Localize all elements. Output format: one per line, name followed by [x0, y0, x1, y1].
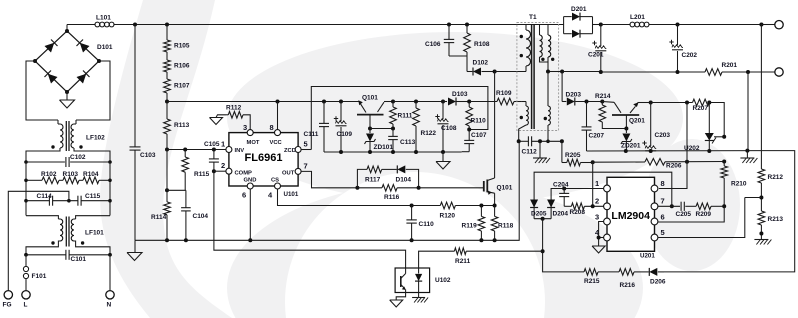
capacitor C111 — [322, 100, 326, 104]
wire out+ down — [760, 25, 762, 151]
svg-text:U101: U101 — [284, 191, 299, 198]
ground hatch RTN — [746, 151, 748, 158]
svg-text:L201: L201 — [630, 14, 645, 21]
svg-text:C102: C102 — [70, 154, 86, 161]
resistor R211 — [454, 248, 466, 255]
wire main ground rail — [135, 141, 519, 240]
transistor Q101 MOSFET — [494, 72, 496, 179]
resistor R120 — [412, 205, 441, 207]
svg-text:LF102: LF102 — [86, 135, 105, 142]
svg-text:C115: C115 — [85, 193, 101, 200]
wire INV row — [167, 149, 226, 151]
svg-text:C201: C201 — [588, 52, 604, 59]
resistor R115 — [184, 150, 186, 158]
svg-text:R216: R216 — [620, 282, 636, 289]
wire pin3 pin4 ground — [599, 222, 604, 247]
svg-text:R211: R211 — [455, 258, 471, 265]
node C203 — [649, 101, 653, 105]
node C204 — [562, 187, 566, 191]
svg-text:D203: D203 — [566, 92, 582, 99]
wire LF101 bottoms — [26, 241, 60, 255]
node COMP — [212, 169, 216, 173]
diode D204 — [547, 200, 555, 208]
node pin2 — [591, 204, 595, 208]
svg-text:D103: D103 — [452, 91, 468, 98]
resistor R117 — [367, 166, 382, 173]
svg-text:C111: C111 — [304, 131, 319, 138]
svg-text:R103: R103 — [63, 171, 79, 178]
svg-text:C203: C203 — [655, 132, 671, 139]
capacitors C114 C115 row — [26, 200, 49, 202]
svg-text:LF101: LF101 — [85, 230, 104, 237]
bridge diode bottom-right — [76, 70, 89, 83]
wire pin8 vertical — [659, 103, 687, 189]
svg-text:ZD201: ZD201 — [621, 143, 641, 150]
svg-text:FL6961: FL6961 — [245, 152, 283, 164]
resistor R110 — [468, 102, 470, 108]
svg-text:VCC: VCC — [270, 140, 283, 146]
node top-R105 — [165, 23, 169, 27]
wire bridge-right to LF102 — [76, 61, 110, 120]
wire secondary bottoms — [540, 57, 549, 62]
svg-text:MOT: MOT — [247, 140, 260, 146]
svg-text:GND: GND — [244, 178, 257, 184]
wire right rail — [109, 162, 111, 216]
svg-text:C105: C105 — [204, 141, 220, 148]
resistor R208 — [564, 205, 571, 207]
svg-text:R213: R213 — [768, 216, 784, 223]
svg-text:R102: R102 — [41, 171, 57, 178]
wire tap to D203 — [561, 72, 563, 102]
svg-text:3: 3 — [595, 213, 599, 222]
diode D104 — [397, 165, 405, 173]
svg-text:R206: R206 — [666, 163, 682, 170]
resistor R205 — [562, 162, 567, 164]
wire bridge-left to LF102 — [26, 61, 58, 120]
svg-text:F101: F101 — [32, 273, 47, 280]
node VCC rail left — [165, 100, 169, 104]
wire LF102 bottoms to rails — [26, 148, 60, 162]
resistor R210 — [723, 162, 725, 167]
svg-text:C108: C108 — [441, 125, 457, 132]
svg-text:Q101: Q101 — [362, 95, 378, 102]
resistors R102 R103 R104 row — [26, 179, 42, 181]
capacitor C107 — [468, 130, 470, 141]
wire pin6 GND — [249, 189, 251, 240]
svg-text:C106: C106 — [425, 41, 441, 48]
svg-text:C103: C103 — [140, 152, 156, 159]
node gate — [417, 186, 421, 190]
inductor L101 — [95, 22, 100, 27]
svg-text:R109: R109 — [496, 90, 512, 97]
svg-text:R210: R210 — [731, 181, 747, 188]
resistor R108 — [466, 25, 468, 34]
wire left rail — [25, 162, 27, 216]
svg-text:R105: R105 — [174, 43, 190, 50]
svg-text:C205: C205 — [676, 211, 692, 218]
wire out rail — [601, 24, 630, 26]
capacitor C207 — [586, 102, 588, 127]
transistor Q101 regulator BJT — [361, 104, 367, 113]
node C110 — [410, 204, 414, 208]
capacitor C103 — [134, 25, 136, 147]
svg-text:Q201: Q201 — [629, 118, 645, 125]
ground snubber — [442, 152, 444, 162]
wire U202 ref — [714, 136, 724, 138]
wire 12V rail — [651, 102, 693, 104]
node C201 — [599, 23, 603, 27]
svg-text:R212: R212 — [768, 174, 784, 181]
capacitor C202 electrolytic — [677, 25, 679, 46]
ground C103 rail — [134, 240, 136, 252]
fuse F101 — [25, 255, 27, 266]
wire COMP — [214, 170, 226, 172]
svg-text:R106: R106 — [174, 63, 190, 70]
svg-text:C114: C114 — [37, 193, 53, 200]
terminal N — [106, 291, 114, 299]
svg-text:D204: D204 — [553, 211, 569, 218]
svg-text:U102: U102 — [435, 277, 451, 284]
capacitor C112 — [519, 140, 529, 142]
resistor R213 — [758, 211, 765, 225]
node R210 bottom — [722, 204, 726, 208]
T1 secondary winding 24V — [539, 25, 541, 36]
node R114 row — [165, 188, 169, 192]
wire W2 D205 — [534, 172, 672, 219]
svg-text:INV: INV — [235, 148, 245, 154]
svg-text:R215: R215 — [584, 278, 600, 285]
wire RTN down — [747, 72, 749, 150]
svg-text:2: 2 — [595, 197, 599, 206]
wire N drop — [109, 255, 111, 290]
wire top rail — [67, 24, 95, 26]
resistor R206 — [593, 161, 645, 163]
wire ZCD pin5 loop — [301, 149, 311, 151]
transistor Q201 — [602, 101, 614, 104]
ground R213 — [760, 236, 762, 240]
wire feedback row — [543, 219, 584, 272]
svg-text:C109: C109 — [337, 131, 353, 138]
capacitor C109 electrolytic — [339, 100, 343, 104]
resistor R111 — [392, 102, 394, 108]
svg-text:N: N — [107, 302, 112, 309]
node Q101 base — [368, 127, 372, 131]
svg-text:5: 5 — [661, 228, 665, 237]
wire VCC rail — [167, 101, 359, 103]
wire R117 branch up — [357, 169, 367, 187]
capacitor C101 — [26, 254, 66, 256]
capacitor C110 — [411, 206, 413, 220]
wire base to R111 bottom — [370, 128, 393, 130]
wire pin5 — [658, 198, 745, 238]
wire RTN row start — [548, 71, 564, 73]
node C202 — [676, 23, 680, 27]
svg-text:6: 6 — [242, 191, 246, 200]
resistor R209 — [696, 203, 711, 210]
optocoupler U102 — [395, 268, 430, 293]
svg-text:2: 2 — [221, 161, 225, 170]
diode D103 — [443, 101, 447, 103]
node R119 — [479, 204, 483, 208]
T1 primary winding — [525, 25, 527, 31]
svg-text:R117: R117 — [365, 177, 381, 184]
diode D203 — [562, 101, 566, 103]
svg-text:6: 6 — [661, 213, 665, 222]
svg-text:R107: R107 — [174, 83, 190, 90]
node divider — [759, 196, 763, 200]
node INV row left — [165, 148, 169, 152]
transformer LF102 — [57, 120, 59, 124]
resistor R106 — [166, 52, 168, 60]
svg-text:R110: R110 — [471, 118, 487, 125]
wire primary bottom — [495, 71, 526, 73]
transformer LF101 — [26, 216, 58, 219]
capacitor C108 electrolytic — [441, 100, 445, 104]
svg-text:R104: R104 — [83, 171, 99, 178]
svg-text:C101: C101 — [71, 256, 87, 263]
node pin8 drop — [276, 100, 280, 104]
svg-text:D206: D206 — [650, 279, 666, 286]
svg-text:L101: L101 — [96, 15, 111, 22]
svg-text:R118: R118 — [498, 223, 514, 230]
transformer T1 outline — [517, 23, 559, 131]
svg-text:R207: R207 — [693, 105, 709, 112]
capacitor C102 — [26, 161, 65, 163]
svg-text:FG: FG — [3, 302, 12, 309]
svg-text:LM2904: LM2904 — [611, 210, 650, 222]
bridge diode bottom-left — [44, 70, 57, 83]
wire pin8 VCC — [277, 102, 279, 130]
wire R212 R213 divider — [760, 150, 762, 169]
svg-text:R209: R209 — [696, 211, 712, 218]
wire pin6 feedback — [658, 206, 724, 222]
node R118/source — [493, 204, 497, 208]
op-amp U101 FL6961 controller — [229, 133, 298, 186]
capacitor C201 electrolytic — [600, 25, 602, 47]
opto LED — [415, 274, 422, 281]
wire ground row 12V — [587, 150, 763, 152]
svg-text:R116: R116 — [384, 194, 400, 201]
node C207 — [585, 100, 589, 104]
resistor R113 — [166, 102, 168, 120]
svg-text:R122: R122 — [421, 130, 437, 137]
capacitor C204 — [563, 189, 565, 194]
zener ZD201 — [625, 129, 627, 134]
node R205 — [591, 160, 595, 164]
terminal FG — [4, 291, 12, 299]
resistor R212 — [758, 169, 765, 183]
svg-text:C202: C202 — [682, 52, 698, 59]
node R110 bottom — [467, 128, 471, 132]
resistor R201 — [705, 69, 722, 76]
op-amp U201 LM2904 — [607, 177, 655, 251]
svg-text:L: L — [24, 302, 28, 309]
node R111 top — [391, 100, 395, 104]
wire opto emitter ground — [396, 290, 405, 301]
svg-text:T1: T1 — [529, 14, 537, 21]
ground R112 — [216, 115, 226, 118]
svg-text:5: 5 — [304, 140, 308, 149]
svg-text:R201: R201 — [722, 62, 738, 69]
resistor R112 — [226, 114, 228, 116]
ground C112 — [539, 141, 541, 158]
svg-text:R119: R119 — [462, 223, 478, 230]
resistor R118 — [494, 206, 496, 217]
wire R211 to LED — [419, 251, 455, 273]
resistor R207 — [693, 99, 710, 106]
wire RTN row — [564, 71, 600, 73]
resistor R107 — [166, 72, 168, 79]
node R110 top — [467, 100, 471, 104]
svg-text:R113: R113 — [174, 122, 190, 129]
wire rail Q to R122 — [393, 101, 443, 103]
capacitor C105 — [213, 150, 215, 159]
wire snubber bottom rail — [324, 151, 462, 153]
svg-text:C112: C112 — [522, 149, 538, 156]
node R214 — [600, 100, 604, 104]
terminal L — [22, 291, 30, 299]
svg-text:OUT: OUT — [282, 171, 295, 177]
resistor R216 — [619, 269, 634, 276]
node top-R108 — [465, 23, 469, 27]
svg-text:COMP: COMP — [235, 171, 253, 177]
svg-text:ZCD: ZCD — [284, 148, 296, 154]
svg-text:R205: R205 — [565, 152, 581, 159]
node R210 top — [722, 160, 726, 164]
capacitor C203 electrolytic — [650, 103, 652, 147]
capacitor C113 — [392, 129, 394, 137]
resistor R215 — [584, 269, 598, 276]
wire R205 drop — [561, 141, 563, 162]
inductor L201 — [630, 22, 635, 27]
wire W3 D204 pin1 — [551, 189, 604, 219]
node pin8 drop junction — [685, 160, 689, 164]
svg-text:8: 8 — [661, 179, 665, 188]
wire R205 to pin2 — [592, 162, 594, 206]
diode D102 — [467, 71, 472, 73]
svg-text:1: 1 — [221, 140, 225, 149]
node out drop — [759, 23, 763, 27]
svg-text:D104: D104 — [396, 177, 412, 184]
terminal out+ — [761, 24, 774, 26]
resistor R214 — [601, 102, 603, 106]
shunt regulator U202 — [708, 103, 710, 134]
wire clamp bottom — [449, 55, 467, 57]
svg-text:ZD101: ZD101 — [374, 144, 394, 151]
bridge diode top-left — [44, 39, 57, 52]
resistor R122 — [414, 100, 418, 104]
capacitor C106 — [448, 25, 450, 40]
wire pin7 row — [658, 205, 680, 207]
bridge diode top-right — [76, 39, 89, 52]
svg-text:3: 3 — [243, 123, 247, 132]
bridge rectifier D101 — [66, 25, 68, 32]
svg-text:R115: R115 — [194, 171, 210, 178]
svg-text:R111: R111 — [398, 113, 413, 120]
node pin7 W2 — [670, 204, 674, 208]
resistor R119 — [480, 206, 482, 217]
T1 core — [531, 24, 533, 129]
svg-text:C113: C113 — [400, 139, 416, 146]
svg-text:C207: C207 — [589, 133, 605, 140]
terminal out- — [775, 68, 783, 76]
wire R207 right — [709, 103, 724, 137]
capacitor C104 — [167, 189, 186, 191]
svg-text:Q101: Q101 — [497, 185, 513, 192]
zener ZD101 — [369, 129, 371, 134]
T1 aux primary winding — [522, 101, 526, 103]
ground below bridge — [66, 92, 68, 100]
diode D201 pair — [563, 17, 565, 34]
svg-text:7: 7 — [304, 162, 308, 171]
wire CS pin4 — [278, 189, 412, 206]
svg-text:C107: C107 — [471, 132, 487, 139]
node drain — [493, 70, 497, 74]
svg-text:C104: C104 — [193, 213, 209, 220]
wire D206 loop right — [664, 151, 795, 272]
svg-text:8: 8 — [270, 123, 274, 132]
diode D206 — [649, 268, 657, 276]
node R213 bottom — [759, 232, 763, 236]
resistor R105 — [166, 25, 168, 41]
svg-text:D201: D201 — [571, 6, 587, 13]
node pin8 supply — [685, 101, 689, 105]
node Q201 base — [624, 127, 628, 131]
wire D-pair bottom — [534, 218, 551, 220]
svg-text:C204: C204 — [553, 182, 569, 189]
svg-text:D102: D102 — [473, 60, 489, 67]
svg-text:R114: R114 — [151, 214, 167, 221]
node top-C106 — [447, 23, 451, 27]
ground opto LED — [412, 297, 425, 299]
svg-text:R120: R120 — [440, 213, 456, 220]
svg-text:D101: D101 — [97, 44, 113, 51]
node R117 left — [355, 186, 359, 190]
svg-text:R108: R108 — [474, 41, 490, 48]
svg-text:D205: D205 — [531, 211, 547, 218]
wire COMP to opto — [214, 171, 406, 268]
svg-text:C110: C110 — [419, 221, 435, 228]
capacitor C205 — [680, 202, 682, 211]
svg-text:7: 7 — [661, 197, 665, 206]
wire FG tap — [8, 191, 69, 290]
svg-text:CS: CS — [271, 178, 279, 184]
node top-C103 — [133, 23, 137, 27]
svg-text:1: 1 — [595, 179, 599, 188]
svg-text:R112: R112 — [226, 105, 242, 112]
node U202 top — [707, 101, 711, 105]
diode D205 — [530, 200, 538, 208]
T1 aux secondary winding — [547, 72, 549, 107]
svg-text:R214: R214 — [595, 93, 611, 100]
resistor R116 — [357, 187, 382, 189]
svg-text:R208: R208 — [570, 209, 586, 216]
wire OUT pin7 — [301, 171, 357, 187]
svg-text:U201: U201 — [640, 253, 655, 260]
resistor R114 — [166, 190, 168, 202]
resistor R109 — [469, 101, 497, 103]
wire gate — [419, 187, 484, 189]
